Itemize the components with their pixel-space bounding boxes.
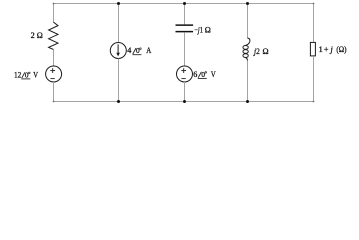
svg-text:6: 6: [193, 70, 197, 79]
wire branch2 upper: [118, 4, 120, 43]
wire right branch lower: [313, 56, 315, 101]
impedance box 1 + j Ω: [310, 42, 315, 56]
label j2 Ω: [253, 47, 269, 56]
svg-text:Ω: Ω: [263, 47, 269, 56]
junction dot top branch2: [117, 2, 120, 5]
wire bottom rail: [53, 101, 314, 103]
svg-text:1: 1: [319, 45, 323, 54]
junction dot top branch4: [246, 2, 249, 5]
capacitor −j1 Ω: [176, 25, 194, 32]
wire branch3 middle: [184, 32, 186, 66]
wire left branch lower: [53, 82, 55, 102]
label 2 Ω: [31, 31, 43, 40]
svg-text:Ω: Ω: [37, 31, 43, 40]
svg-text:4: 4: [127, 46, 131, 55]
svg-text:2: 2: [31, 31, 35, 40]
svg-text:Ω: Ω: [205, 26, 211, 35]
wire branch4 lower: [247, 61, 249, 102]
resistor R 2Ω: [49, 22, 58, 49]
svg-text:V: V: [33, 70, 38, 79]
junction dot bottom branch4: [246, 100, 249, 103]
wire top rail: [53, 3, 314, 5]
junction dot top branch3: [183, 2, 186, 5]
svg-text:j2: j2: [253, 47, 260, 56]
wire right branch upper: [313, 4, 315, 43]
wire branch4 upper: [247, 4, 249, 39]
label 12∠0° V: [14, 70, 38, 79]
svg-text:+: +: [324, 45, 329, 54]
label −j1 Ω: [194, 26, 211, 35]
svg-text:−j1: −j1: [194, 26, 203, 35]
corner bottom-right: [313, 101, 315, 103]
junction dot bottom branch2: [117, 100, 120, 103]
wire branch3 lower: [184, 82, 186, 102]
svg-text:12: 12: [14, 70, 21, 79]
current source I1 4∠0° A: [110, 43, 126, 59]
wire branch2 lower: [118, 59, 120, 102]
svg-text:A: A: [146, 46, 151, 55]
wire left branch upper: [53, 4, 55, 23]
voltage source V1 12∠0° V: [46, 66, 62, 82]
corner top-right: [313, 3, 315, 5]
inductor j2 Ω: [243, 38, 250, 61]
junction dot bottom branch3: [183, 100, 186, 103]
voltage source V2 6∠0° V: [177, 66, 193, 82]
label 1 + j (Ω): [319, 45, 347, 54]
svg-text:V: V: [211, 70, 216, 79]
corner bottom-left: [53, 101, 55, 103]
label 4∠0° A: [127, 46, 151, 55]
corner top-left: [53, 3, 55, 5]
wire branch3 upper: [184, 4, 186, 25]
wire left branch middle: [53, 50, 55, 67]
label 6∠0° V: [193, 70, 216, 79]
svg-text:(Ω): (Ω): [336, 45, 346, 54]
